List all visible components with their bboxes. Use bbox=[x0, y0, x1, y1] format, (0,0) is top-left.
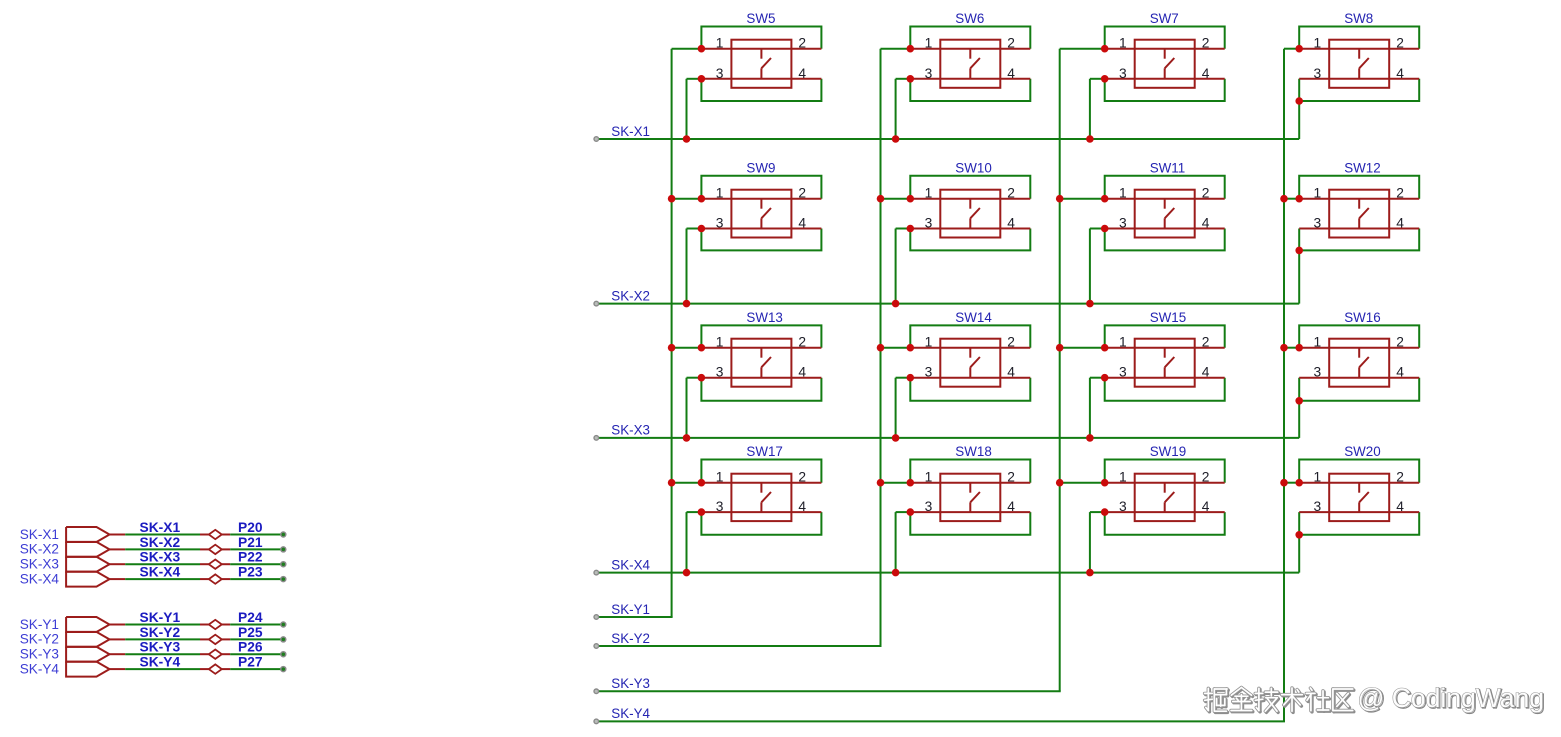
svg-text:1: 1 bbox=[1314, 36, 1322, 51]
svg-text:2: 2 bbox=[1202, 335, 1210, 350]
connector row SK-X1 to P20 bbox=[20, 520, 286, 542]
svg-text:3: 3 bbox=[925, 499, 933, 514]
svg-text:3: 3 bbox=[1119, 365, 1127, 380]
svg-text:3: 3 bbox=[1314, 216, 1322, 231]
svg-text:1: 1 bbox=[1119, 186, 1127, 201]
svg-text:SK-Y4: SK-Y4 bbox=[611, 706, 650, 721]
svg-text:SK-Y2: SK-Y2 bbox=[20, 632, 59, 647]
svg-text:SK-X3: SK-X3 bbox=[611, 423, 650, 438]
watermark bbox=[1205, 683, 1546, 714]
svg-text:3: 3 bbox=[716, 499, 724, 514]
wire net SK-Y3 line bbox=[594, 676, 1061, 694]
svg-text:SK-X4: SK-X4 bbox=[20, 571, 60, 586]
svg-text:4: 4 bbox=[1202, 216, 1210, 231]
svg-text:SW8: SW8 bbox=[1344, 11, 1373, 26]
svg-text:2: 2 bbox=[798, 186, 806, 201]
svg-text:2: 2 bbox=[1007, 335, 1015, 350]
svg-text:2: 2 bbox=[1396, 470, 1404, 485]
svg-text:2: 2 bbox=[1007, 186, 1015, 201]
svg-text:SW14: SW14 bbox=[955, 310, 992, 325]
svg-text:4: 4 bbox=[1396, 365, 1404, 380]
svg-text:P21: P21 bbox=[238, 535, 263, 550]
svg-text:P26: P26 bbox=[238, 640, 263, 655]
svg-text:SK-X4: SK-X4 bbox=[140, 565, 181, 580]
svg-text:2: 2 bbox=[798, 36, 806, 51]
svg-text:SW20: SW20 bbox=[1344, 444, 1380, 459]
svg-text:P23: P23 bbox=[238, 565, 263, 580]
wire column vertical SK-Y4 bbox=[1283, 49, 1285, 722]
svg-text:1: 1 bbox=[1119, 36, 1127, 51]
svg-text:2: 2 bbox=[1396, 335, 1404, 350]
svg-text:4: 4 bbox=[1007, 66, 1015, 81]
switch SW9 bbox=[668, 160, 822, 307]
svg-text:SW11: SW11 bbox=[1150, 160, 1185, 175]
svg-text:3: 3 bbox=[925, 365, 933, 380]
svg-text:1: 1 bbox=[716, 470, 724, 485]
svg-text:3: 3 bbox=[925, 66, 933, 81]
svg-text:SW15: SW15 bbox=[1150, 310, 1186, 325]
svg-text:2: 2 bbox=[1007, 470, 1015, 485]
svg-text:4: 4 bbox=[1396, 216, 1404, 231]
svg-text:4: 4 bbox=[1007, 216, 1015, 231]
svg-text:1: 1 bbox=[925, 36, 933, 51]
connector row SK-X3 to P22 bbox=[20, 550, 286, 572]
wire column vertical SK-Y3 bbox=[1059, 49, 1061, 692]
svg-text:SK-X1: SK-X1 bbox=[611, 124, 650, 139]
switch SW18 bbox=[877, 444, 1031, 576]
svg-text:3: 3 bbox=[716, 66, 724, 81]
svg-text:SK-Y3: SK-Y3 bbox=[611, 676, 650, 691]
svg-text:2: 2 bbox=[1202, 36, 1210, 51]
svg-text:P24: P24 bbox=[238, 610, 263, 625]
svg-text:P25: P25 bbox=[238, 625, 263, 640]
svg-text:SK-X4: SK-X4 bbox=[611, 557, 650, 572]
svg-text:SW16: SW16 bbox=[1344, 310, 1380, 325]
wire net SK-X1 row line bbox=[594, 124, 1299, 142]
svg-text:1: 1 bbox=[716, 36, 724, 51]
switch SW6 bbox=[881, 11, 1031, 143]
svg-text:SK-Y1: SK-Y1 bbox=[611, 602, 650, 617]
wire net SK-Y2 line bbox=[594, 631, 882, 649]
svg-text:SK-Y2: SK-Y2 bbox=[611, 631, 650, 646]
svg-text:SW13: SW13 bbox=[746, 310, 782, 325]
svg-text:SW7: SW7 bbox=[1150, 11, 1179, 26]
svg-text:P22: P22 bbox=[238, 550, 263, 565]
svg-text:SK-Y3: SK-Y3 bbox=[20, 647, 59, 662]
svg-text:4: 4 bbox=[1007, 365, 1015, 380]
svg-text:SK-Y1: SK-Y1 bbox=[140, 610, 181, 625]
svg-text:4: 4 bbox=[798, 499, 806, 514]
svg-text:2: 2 bbox=[1202, 470, 1210, 485]
svg-text:SK-X2: SK-X2 bbox=[611, 288, 650, 303]
svg-text:3: 3 bbox=[1119, 499, 1127, 514]
switch SW17 bbox=[668, 444, 822, 576]
svg-text:SW18: SW18 bbox=[955, 444, 991, 459]
svg-text:@ CodingWang: @ CodingWang bbox=[1358, 683, 1544, 713]
svg-text:2: 2 bbox=[798, 335, 806, 350]
svg-text:4: 4 bbox=[798, 66, 806, 81]
svg-text:4: 4 bbox=[1396, 66, 1404, 81]
svg-text:SK-X1: SK-X1 bbox=[140, 520, 181, 535]
svg-text:SW10: SW10 bbox=[955, 160, 991, 175]
connector row SK-X2 to P21 bbox=[20, 535, 286, 557]
switch SW10 bbox=[877, 160, 1031, 307]
svg-text:2: 2 bbox=[1396, 36, 1404, 51]
svg-text:SK-Y4: SK-Y4 bbox=[140, 655, 181, 670]
svg-text:SK-Y2: SK-Y2 bbox=[140, 625, 181, 640]
svg-text:4: 4 bbox=[1202, 365, 1210, 380]
svg-text:SK-Y3: SK-Y3 bbox=[140, 640, 181, 655]
wire net SK-X3 row line bbox=[594, 423, 1299, 441]
connector row SK-Y2 to P25 bbox=[20, 625, 286, 647]
connector row SK-Y4 to P27 bbox=[20, 655, 286, 677]
svg-text:4: 4 bbox=[1202, 66, 1210, 81]
svg-text:SW12: SW12 bbox=[1344, 160, 1380, 175]
svg-text:3: 3 bbox=[1119, 66, 1127, 81]
svg-text:3: 3 bbox=[925, 216, 933, 231]
switch SW15 bbox=[1056, 310, 1225, 442]
svg-text:1: 1 bbox=[1119, 470, 1127, 485]
wire net SK-Y4 line bbox=[594, 706, 1285, 724]
svg-text:SK-Y4: SK-Y4 bbox=[20, 661, 60, 676]
svg-text:1: 1 bbox=[925, 335, 933, 350]
svg-text:4: 4 bbox=[798, 216, 806, 231]
wire net SK-X4 row line bbox=[594, 557, 1299, 574]
switch SW12 bbox=[1280, 160, 1419, 303]
svg-text:4: 4 bbox=[1396, 499, 1404, 514]
svg-text:SW9: SW9 bbox=[746, 160, 775, 175]
svg-text:1: 1 bbox=[925, 186, 933, 201]
connector row SK-X4 to P23 bbox=[20, 565, 286, 587]
svg-text:2: 2 bbox=[798, 470, 806, 485]
svg-text:1: 1 bbox=[716, 186, 724, 201]
switch SW5 bbox=[672, 11, 822, 143]
svg-text:SW6: SW6 bbox=[955, 11, 984, 26]
svg-text:3: 3 bbox=[1119, 216, 1127, 231]
wire net SK-Y1 line bbox=[594, 602, 673, 620]
wire net SK-X2 row line bbox=[594, 288, 1299, 306]
svg-text:3: 3 bbox=[1314, 66, 1322, 81]
connector row SK-Y3 to P26 bbox=[20, 640, 286, 662]
svg-text:1: 1 bbox=[1314, 470, 1322, 485]
svg-text:4: 4 bbox=[1202, 499, 1210, 514]
svg-text:3: 3 bbox=[1314, 499, 1322, 514]
svg-text:2: 2 bbox=[1396, 186, 1404, 201]
wire column vertical SK-Y1 bbox=[671, 49, 673, 617]
svg-text:4: 4 bbox=[1007, 499, 1015, 514]
svg-text:2: 2 bbox=[1202, 186, 1210, 201]
svg-text:SK-X3: SK-X3 bbox=[140, 550, 181, 565]
svg-text:SK-Y1: SK-Y1 bbox=[20, 617, 59, 632]
svg-text:SK-X1: SK-X1 bbox=[20, 527, 59, 542]
switch SW14 bbox=[877, 310, 1031, 442]
wire column vertical SK-Y2 bbox=[880, 49, 882, 646]
svg-text:P27: P27 bbox=[238, 655, 263, 670]
switch SW16 bbox=[1280, 310, 1419, 438]
svg-text:SW17: SW17 bbox=[746, 444, 782, 459]
switch SW20 bbox=[1280, 444, 1419, 573]
switch SW7 bbox=[1060, 11, 1225, 143]
svg-text:1: 1 bbox=[1314, 335, 1322, 350]
svg-text:1: 1 bbox=[925, 470, 933, 485]
svg-text:2: 2 bbox=[1007, 36, 1015, 51]
switch SW8 bbox=[1284, 11, 1419, 139]
connector row SK-Y1 to P24 bbox=[20, 610, 286, 632]
svg-text:1: 1 bbox=[716, 335, 724, 350]
switch SW13 bbox=[668, 310, 822, 442]
svg-text:SK-X3: SK-X3 bbox=[20, 557, 59, 572]
svg-text:4: 4 bbox=[798, 365, 806, 380]
switch SW11 bbox=[1056, 160, 1225, 307]
svg-text:3: 3 bbox=[1314, 365, 1322, 380]
svg-text:SK-X2: SK-X2 bbox=[20, 542, 59, 557]
switch SW19 bbox=[1056, 444, 1225, 576]
svg-text:SW5: SW5 bbox=[746, 11, 775, 26]
svg-text:P20: P20 bbox=[238, 520, 263, 535]
svg-text:SK-X2: SK-X2 bbox=[140, 535, 181, 550]
svg-text:1: 1 bbox=[1314, 186, 1322, 201]
svg-text:3: 3 bbox=[716, 365, 724, 380]
svg-text:SW19: SW19 bbox=[1150, 444, 1186, 459]
svg-text:1: 1 bbox=[1119, 335, 1127, 350]
svg-text:3: 3 bbox=[716, 216, 724, 231]
